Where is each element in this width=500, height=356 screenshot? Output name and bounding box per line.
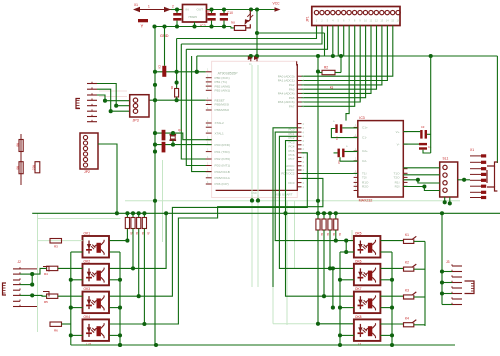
svg-text:1: 1	[207, 79, 209, 82]
svg-text:4: 4	[303, 165, 305, 168]
svg-text:4: 4	[303, 182, 305, 185]
svg-text:C2+: C2+	[362, 149, 368, 153]
svg-text:PD5/OC1A: PD5/OC1A	[215, 176, 231, 180]
svg-text:OK8: OK8	[355, 315, 362, 319]
svg-text:1: 1	[207, 124, 209, 127]
svg-text:R9: R9	[16, 166, 20, 170]
svg-text:PD1 (TXD): PD1 (TXD)	[215, 150, 230, 154]
svg-text:R2O: R2O	[362, 185, 369, 189]
svg-text:1: 1	[355, 134, 357, 137]
svg-text:K2: K2	[405, 261, 409, 265]
svg-text:1: 1	[207, 75, 209, 78]
svg-text:1: 1	[207, 156, 209, 159]
svg-text:C6: C6	[158, 65, 162, 69]
svg-text:OK6: OK6	[355, 259, 362, 263]
svg-text:R4: R4	[44, 272, 48, 276]
svg-text:T2O: T2O	[393, 176, 400, 180]
svg-text:C4: C4	[428, 145, 432, 149]
svg-text:ks: ks	[330, 86, 334, 90]
svg-text:JP3: JP3	[133, 119, 139, 123]
svg-text:78S05: 78S05	[188, 15, 197, 19]
svg-text:PA7: PA7	[289, 105, 295, 109]
svg-text:C2: C2	[337, 161, 341, 165]
svg-text:4: 4	[303, 157, 305, 160]
svg-text:OK7: OK7	[355, 287, 362, 291]
svg-text:1k: 1k	[147, 232, 151, 235]
svg-text:IC3: IC3	[359, 116, 364, 120]
svg-text:PD2 (INT0): PD2 (INT0)	[215, 157, 231, 161]
svg-text:R8: R8	[16, 143, 20, 147]
svg-text:VCC: VCC	[273, 2, 281, 6]
svg-text:9: 9	[359, 19, 361, 23]
svg-text:1: 1	[355, 158, 357, 161]
svg-text:OK2: OK2	[84, 259, 91, 263]
svg-text:C2-: C2-	[362, 159, 367, 163]
svg-text:1: 1	[207, 137, 209, 140]
svg-text:1: 1	[355, 170, 357, 173]
svg-text:PB5/MOSI: PB5/MOSI	[215, 103, 230, 107]
svg-text:K3: K3	[405, 289, 409, 293]
svg-text:1: 1	[207, 162, 209, 165]
svg-text:5: 5	[338, 19, 340, 23]
svg-text:C3: C3	[421, 125, 425, 129]
svg-text:4: 4	[303, 140, 305, 143]
svg-text:OK3: OK3	[84, 287, 91, 291]
svg-text:1: 1	[207, 107, 209, 110]
svg-text:J3: J3	[446, 260, 450, 264]
svg-text:PD6 (ICP): PD6 (ICP)	[215, 182, 229, 186]
svg-text:6: 6	[343, 19, 345, 23]
svg-text:1: 1	[207, 101, 209, 104]
svg-text:SL1: SL1	[443, 157, 449, 161]
svg-text:OUT: OUT	[197, 8, 204, 12]
svg-text:R3: R3	[54, 245, 58, 249]
svg-text:15: 15	[391, 19, 394, 23]
svg-text:VSS USART: VSS USART	[275, 192, 293, 196]
svg-text:Y: Y	[141, 24, 144, 29]
svg-text:AT90S8535P: AT90S8535P	[218, 71, 239, 75]
svg-text:1: 1	[207, 120, 209, 123]
svg-text:12: 12	[375, 19, 378, 23]
svg-text:4: 4	[303, 186, 305, 189]
svg-text:1: 1	[207, 181, 209, 184]
svg-text:4: 4	[303, 161, 305, 164]
svg-text:4: 4	[303, 144, 305, 147]
svg-text:R5: R5	[44, 300, 48, 304]
svg-text:14: 14	[386, 19, 389, 23]
svg-text:1: 1	[207, 168, 209, 171]
svg-text:T2I: T2I	[362, 176, 367, 180]
svg-text:1: 1	[355, 179, 357, 182]
svg-text:1: 1	[207, 69, 209, 72]
svg-text:1: 1	[355, 174, 357, 177]
svg-text:4: 4	[303, 131, 305, 134]
svg-text:PC7: PC7	[288, 157, 294, 161]
svg-text:J2: J2	[18, 260, 22, 264]
svg-text:MAX232: MAX232	[359, 199, 373, 203]
svg-text:1: 1	[207, 97, 209, 100]
svg-text:4: 4	[303, 136, 305, 139]
svg-text:1k: 1k	[338, 233, 342, 236]
svg-text:JP2: JP2	[84, 170, 90, 174]
svg-text:R10: R10	[32, 165, 36, 171]
svg-text:1: 1	[355, 124, 357, 127]
svg-text:OK4: OK4	[84, 315, 91, 319]
svg-text:4: 4	[332, 19, 334, 23]
svg-text:+: +	[333, 120, 335, 124]
svg-text:3: 3	[327, 19, 329, 23]
svg-text:C9: C9	[206, 9, 210, 13]
svg-text:R6: R6	[54, 329, 58, 333]
svg-text:V-: V-	[397, 142, 400, 146]
svg-text:C1+: C1+	[362, 126, 368, 130]
svg-text:2: 2	[321, 19, 323, 23]
svg-text:2: 2	[172, 5, 174, 9]
svg-text:4: 4	[303, 127, 305, 130]
svg-text:8: 8	[354, 19, 356, 23]
svg-text:IC2: IC2	[200, 24, 206, 28]
svg-text:XTAL1: XTAL1	[215, 131, 225, 135]
svg-text:OC0: OC0	[288, 181, 295, 185]
svg-text:1: 1	[207, 148, 209, 151]
svg-text:PD7/OC2: PD7/OC2	[281, 172, 295, 176]
svg-text:1: 1	[207, 83, 209, 86]
svg-text:JP1: JP1	[306, 16, 310, 22]
svg-text:C1: C1	[335, 137, 339, 141]
svg-text:1: 1	[207, 175, 209, 178]
svg-text:Q1: Q1	[178, 128, 182, 132]
svg-text:PD0 (RXD): PD0 (RXD)	[215, 143, 230, 147]
svg-text:1: 1	[316, 19, 318, 23]
svg-text:PA1 (ADC1): PA1 (ADC1)	[278, 79, 295, 83]
svg-text:ko: ko	[232, 21, 236, 25]
svg-text:11: 11	[370, 19, 373, 23]
svg-text:XTAL2: XTAL2	[215, 121, 225, 125]
svg-text:1: 1	[355, 183, 357, 186]
svg-text:+: +	[346, 145, 348, 149]
svg-text:1: 1	[207, 141, 209, 144]
svg-text:R1: R1	[170, 86, 174, 90]
svg-text:4: 4	[303, 148, 305, 151]
svg-text:X1: X1	[134, 3, 138, 7]
svg-text:R2I: R2I	[395, 185, 400, 189]
svg-text:R2: R2	[324, 66, 328, 70]
svg-text:IN: IN	[186, 8, 189, 12]
svg-text:X1: X1	[470, 148, 474, 152]
svg-text:PD3 (INT1): PD3 (INT1)	[215, 164, 231, 168]
svg-text:7: 7	[348, 19, 350, 23]
svg-text:PB6/MISO: PB6/MISO	[215, 108, 230, 112]
svg-text:1: 1	[207, 87, 209, 90]
svg-text:13: 13	[380, 19, 383, 23]
svg-text:PD4/OC1B: PD4/OC1B	[215, 170, 230, 174]
svg-text:V+: V+	[396, 130, 400, 134]
svg-text:1: 1	[355, 187, 357, 190]
svg-text:C1-: C1-	[362, 135, 367, 139]
svg-text:1: 1	[148, 5, 150, 9]
svg-text:OK5: OK5	[355, 232, 362, 236]
svg-text:PB3 (AIN1): PB3 (AIN1)	[215, 89, 231, 93]
svg-text:K4: K4	[405, 316, 409, 320]
svg-text:1: 1	[207, 130, 209, 133]
svg-text:OK1: OK1	[84, 232, 91, 236]
svg-text:10: 10	[364, 19, 367, 23]
svg-text:1: 1	[355, 148, 357, 151]
svg-text:C10: C10	[227, 11, 233, 15]
svg-text:K1: K1	[405, 233, 409, 237]
svg-text:4: 4	[303, 123, 305, 126]
